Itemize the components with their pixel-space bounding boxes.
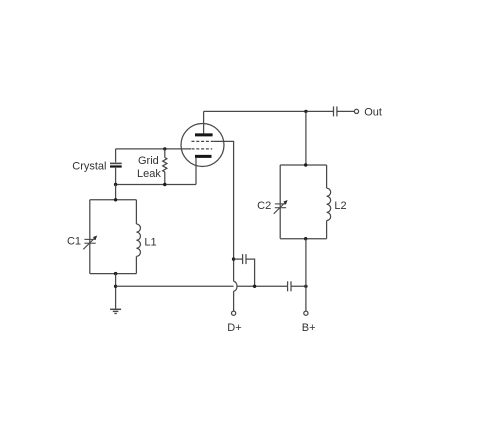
wire: filament lead down to cathode rail [195,158,197,185]
node: ground rail junction [114,285,117,288]
inductor L1 [136,224,140,256]
node: screen bypass junction [232,257,235,260]
label: Grid Leak [137,155,161,180]
wire: cathode rail (crystal bottom to filament) [116,184,196,186]
node: tank1 top [114,198,117,201]
wire: ground rail to B+ junction (with hop over D+ line) [116,285,306,287]
node: tank1 bottom [114,272,117,275]
node: B+ rail junction [304,285,307,288]
resistor R1 grid leak [163,149,167,185]
V1 plate [195,133,213,136]
svg-text:Grid: Grid [138,155,159,167]
wire: crystal bottom to tank1 top [115,185,117,200]
node: grid leak bottom [163,183,166,186]
wire: screen grid to right [214,141,234,259]
wire: tank2 feed from top rail [305,111,307,165]
capacitor C2 (variable) [274,200,288,214]
svg-text:L2: L2 [334,200,346,212]
wire: tank1 bottom to ground rail [115,274,117,310]
V1 screen grid (upper dashes) [192,140,214,142]
svg-text:B+: B+ [302,322,316,334]
gap mask for C4 [288,285,290,288]
svg-text:D+: D+ [227,322,241,334]
crystal XTAL [110,149,122,185]
terminal: B+ [304,311,308,315]
wire: tank2 bottom to B+ terminal [305,239,307,311]
svg-text:Out: Out [364,106,382,118]
V1 control grid (lower dashes) [192,148,213,150]
capacitor C3 (screen bypass) [234,254,255,286]
ground [110,309,121,313]
capacitor C1 (variable) [83,236,97,250]
svg-text:L1: L1 [144,237,156,249]
wire: top rail (plate to output cap) [204,110,333,112]
node: tank2 bottom [304,237,307,240]
capacitor C4 (B+ blocking) on ground rail [288,281,291,291]
tank2 rectangle wires [280,165,326,239]
wire: grid rail (crystal top to control grid) [116,148,191,150]
tube V1 envelope [181,124,224,167]
wire hop: D+ line over ground rail [234,281,237,291]
V1 filament [195,155,212,158]
svg-text:Leak: Leak [137,168,161,180]
svg-text:Crystal: Crystal [72,160,106,172]
node: tank2 top [304,163,307,166]
node: grid leak top [163,147,166,150]
capacitor C5 (output coupling) [334,106,355,116]
svg-text:C1: C1 [67,236,81,248]
node: bypass to ground rail [253,285,256,288]
terminal: D+ [232,311,236,315]
terminal: Out [354,109,358,113]
inductor L2 [327,188,331,220]
svg-text:C2: C2 [257,200,271,212]
wire: screen line down to D+ terminal [233,259,235,311]
node: top rail / tank2 junction [304,110,307,113]
tank1 rectangle wires [90,200,137,274]
node: crystal bottom junction [114,183,117,186]
wire: plate to top rail [203,111,205,134]
